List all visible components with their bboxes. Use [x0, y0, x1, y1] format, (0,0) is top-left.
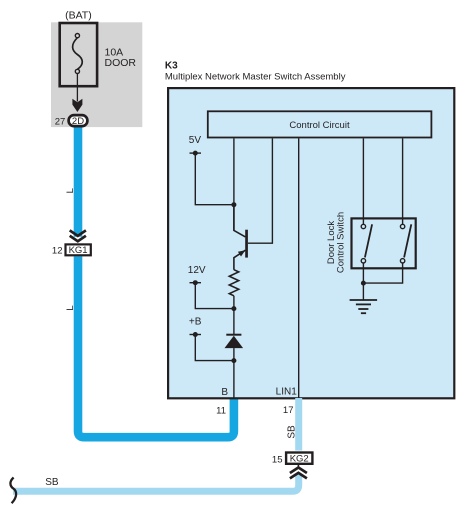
wire resistor to node [233, 296, 235, 335]
svg-text:12V: 12V [188, 265, 206, 276]
node junction +B/diode [231, 358, 236, 363]
wire 5V to node [195, 153, 234, 205]
svg-text:SB: SB [45, 477, 59, 488]
arrowhead into connector 2D [72, 99, 82, 112]
fuse terminal circle top [75, 34, 79, 38]
connector KG2 box [286, 453, 312, 464]
wire fuse to connector 2D [76, 74, 78, 102]
fuse F1 body [60, 23, 97, 86]
wire switch right to ground node [363, 263, 402, 283]
wire SB pale blue from KG2 to bottom run [13, 474, 299, 491]
svg-text:LIN1: LIN1 [276, 386, 298, 397]
svg-text:(BAT): (BAT) [65, 10, 92, 22]
connector KG1 chevron [70, 230, 86, 241]
squiggle wire continuation [10, 478, 16, 504]
wire switch left to ground node [362, 263, 364, 300]
svg-text:KG1: KG1 [69, 245, 88, 256]
transistor Q1 collector lead [234, 205, 246, 237]
svg-text:L: L [65, 188, 76, 193]
node junction ground [361, 281, 366, 286]
switch right contact bottom [400, 259, 404, 263]
wire +B to node [195, 335, 234, 361]
node junction 12V/resistor [231, 306, 236, 311]
svg-text:KG2: KG2 [290, 454, 309, 465]
connector KG2 chevron [290, 468, 307, 479]
svg-text:5V: 5V [189, 135, 202, 146]
fuse element (S-curve) [73, 38, 83, 70]
diode D1 [226, 334, 241, 336]
switch left blade [365, 224, 372, 257]
wire 12V to node [195, 283, 234, 309]
svg-text:27: 27 [55, 116, 66, 127]
wire control circuit to switch right [402, 139, 404, 225]
switch left contact bottom [361, 259, 365, 263]
fuse terminal circle bottom [75, 69, 79, 73]
fuse holder gray panel [51, 22, 142, 127]
svg-text:L: L [65, 305, 76, 310]
wire control circuit to transistor base (x=272) [248, 139, 273, 244]
node junction 5V/collector [231, 202, 236, 207]
K3 assembly box [168, 88, 454, 398]
svg-text:17: 17 [283, 405, 294, 416]
12V terminal [190, 282, 202, 284]
svg-text:+B: +B [189, 316, 202, 327]
svg-text:Control Circuit: Control Circuit [289, 120, 350, 131]
svg-text:11: 11 [216, 405, 226, 416]
svg-text:2D: 2D [72, 116, 84, 127]
wire control circuit to transistor collector (x=234) [233, 139, 235, 231]
connector 2D oval [69, 115, 88, 126]
transistor Q1 base bar [245, 230, 248, 258]
door lock control switch S1 box [352, 218, 416, 268]
svg-text:15: 15 [272, 454, 283, 465]
svg-text:DOOR: DOOR [105, 57, 137, 69]
wire control circuit to switch left [362, 139, 364, 225]
wire SB pale blue from pin 17 to KG2 [295, 398, 302, 451]
svg-text:Multiplex Network Master Switc: Multiplex Network Master Switch Assembly [165, 72, 346, 83]
ground symbol [350, 299, 378, 301]
svg-text:SB: SB [286, 425, 297, 439]
connector KG2 stub [297, 465, 299, 468]
svg-text:B: B [221, 387, 228, 398]
control circuit U1 [208, 111, 432, 137]
switch left contact top [361, 224, 365, 228]
transistor Q1 emitter lead with arrow [234, 250, 246, 270]
switch right blade [404, 224, 411, 257]
5V terminal [190, 152, 202, 154]
wire diode to pin B [233, 348, 235, 398]
wire L (blue) from 2D down, left run to pin 11 [74, 126, 83, 237]
switch right contact top [400, 224, 404, 228]
svg-text:12: 12 [52, 245, 63, 256]
wire LIN1 (x=299) [298, 139, 300, 399]
svg-text:K3: K3 [165, 61, 178, 72]
svg-text:Control Switch: Control Switch [336, 212, 347, 273]
resistor R1 [229, 270, 238, 296]
connector KG1 box [66, 244, 91, 255]
+B terminal [190, 334, 202, 336]
